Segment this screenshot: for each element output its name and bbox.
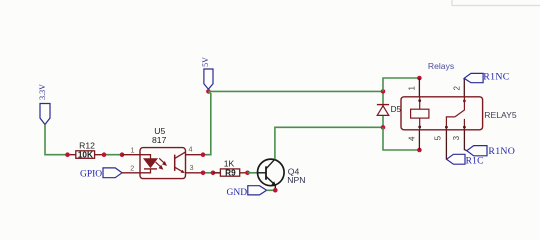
svg-text:R9: R9 bbox=[225, 169, 236, 178]
junction R9 right bbox=[245, 171, 250, 176]
junction relay pin4 bbox=[417, 148, 422, 153]
svg-text:3: 3 bbox=[190, 163, 194, 172]
relay RELAY5 box bbox=[401, 97, 483, 130]
Q4 emitter bbox=[266, 176, 275, 190]
wire 3.3V stem and rail to R12 bbox=[45, 125, 68, 155]
resistor R12 leads bbox=[68, 154, 105, 156]
connector R1C pentagon bbox=[447, 154, 466, 164]
svg-text:3.3V: 3.3V bbox=[38, 84, 47, 100]
optocoupler U5 box bbox=[140, 148, 186, 179]
U5 LED cathode lead bbox=[140, 169, 151, 173]
wire 5V rail to relay bbox=[208, 90, 383, 92]
connector R1NO pentagon bbox=[467, 146, 487, 156]
wire R12 right to U5 pin1 bbox=[104, 154, 122, 156]
relay coil leads bbox=[419, 97, 421, 130]
svg-text:3: 3 bbox=[452, 135, 461, 140]
svg-text:2: 2 bbox=[130, 164, 134, 173]
svg-text:GPIO: GPIO bbox=[80, 169, 102, 179]
resistor R12 bbox=[76, 150, 95, 159]
junction U5 pin4 bbox=[201, 152, 206, 157]
wire D5 bottom to relay pin4 bbox=[383, 127, 419, 150]
svg-text:10K: 10K bbox=[78, 150, 93, 159]
transistor Q4 circle bbox=[258, 159, 285, 186]
wire 5V down to U5 pin4 bbox=[203, 91, 211, 154]
svg-text:1K: 1K bbox=[224, 159, 235, 169]
svg-text:R1NC: R1NC bbox=[483, 71, 509, 82]
svg-text:R1NO: R1NO bbox=[488, 146, 515, 157]
relay NO contact pin3 bbox=[463, 119, 465, 130]
supply +5V symbol bbox=[201, 57, 213, 89]
U5 LED anode lead bbox=[140, 155, 151, 159]
svg-text:4: 4 bbox=[407, 136, 416, 141]
svg-text:5: 5 bbox=[434, 135, 443, 140]
svg-text:1: 1 bbox=[131, 146, 135, 155]
wire D5 top to relay pin1 bbox=[383, 78, 419, 91]
relay coil bbox=[411, 109, 429, 118]
diode D5 triangle bbox=[377, 106, 389, 116]
svg-text:817: 817 bbox=[152, 135, 167, 145]
resistor R9 leads bbox=[213, 172, 248, 174]
resistor R9 bbox=[220, 169, 239, 178]
wire GND to Q4 emitter bbox=[267, 189, 276, 191]
decorative faint frame top right bbox=[452, 0, 540, 6]
junction 5V node bbox=[206, 89, 211, 94]
svg-text:R1C: R1C bbox=[466, 156, 484, 166]
relay common contact from pin2 bbox=[463, 97, 465, 110]
connector R1NC pentagon bbox=[464, 73, 483, 82]
junction relay pin1 bbox=[417, 76, 422, 81]
svg-text:RELAY5: RELAY5 bbox=[484, 110, 517, 120]
connector GPIO pentagon bbox=[103, 168, 122, 178]
wire R9 to Q4 base bbox=[248, 172, 258, 174]
svg-text:2: 2 bbox=[453, 86, 462, 91]
junction D5 top bbox=[381, 89, 386, 94]
U5 phototransistor collector bbox=[175, 152, 186, 158]
junction dots pin3 line bbox=[201, 171, 206, 176]
Q4 base lead bbox=[258, 172, 267, 174]
relay RELAY5 pin leads outside bbox=[419, 78, 466, 159]
wire U5 pin3 to R9 bbox=[203, 172, 220, 174]
diode D5 cathode bar bbox=[377, 104, 389, 106]
U5 phototransistor base bbox=[174, 155, 176, 171]
U5 light arrow 1 bbox=[159, 158, 164, 163]
svg-text:NPN: NPN bbox=[287, 175, 305, 185]
junction Q4 emitter bbox=[273, 188, 278, 193]
Q4 collector bbox=[266, 159, 275, 169]
wire Q4 collector to relay coil row bbox=[275, 127, 383, 159]
U5 phototransistor emitter bbox=[175, 167, 184, 172]
optocoupler U5 pin leads bbox=[122, 155, 203, 173]
U5 light arrow 2 bbox=[156, 162, 161, 167]
relay armature bbox=[455, 110, 465, 117]
wire D5 vertical bbox=[382, 91, 384, 127]
U5 LED triangle bbox=[144, 159, 157, 168]
svg-text:R12: R12 bbox=[79, 141, 95, 151]
svg-text:D5: D5 bbox=[391, 105, 402, 114]
svg-text:GND: GND bbox=[227, 188, 248, 198]
svg-text:Relays: Relays bbox=[428, 61, 454, 71]
junction D5 bottom bbox=[381, 125, 386, 130]
svg-text:4: 4 bbox=[189, 145, 193, 154]
Q4 base bar bbox=[265, 166, 267, 180]
svg-text:1: 1 bbox=[408, 86, 417, 91]
svg-text:5V: 5V bbox=[201, 57, 210, 67]
U5 LED cathode bar bbox=[144, 168, 157, 170]
connector GND pentagon bbox=[248, 186, 267, 195]
relay NC contact pin5 bbox=[446, 117, 455, 130]
supply +3.3V symbol bbox=[38, 84, 50, 125]
junction dots on R12 rail bbox=[65, 152, 70, 157]
